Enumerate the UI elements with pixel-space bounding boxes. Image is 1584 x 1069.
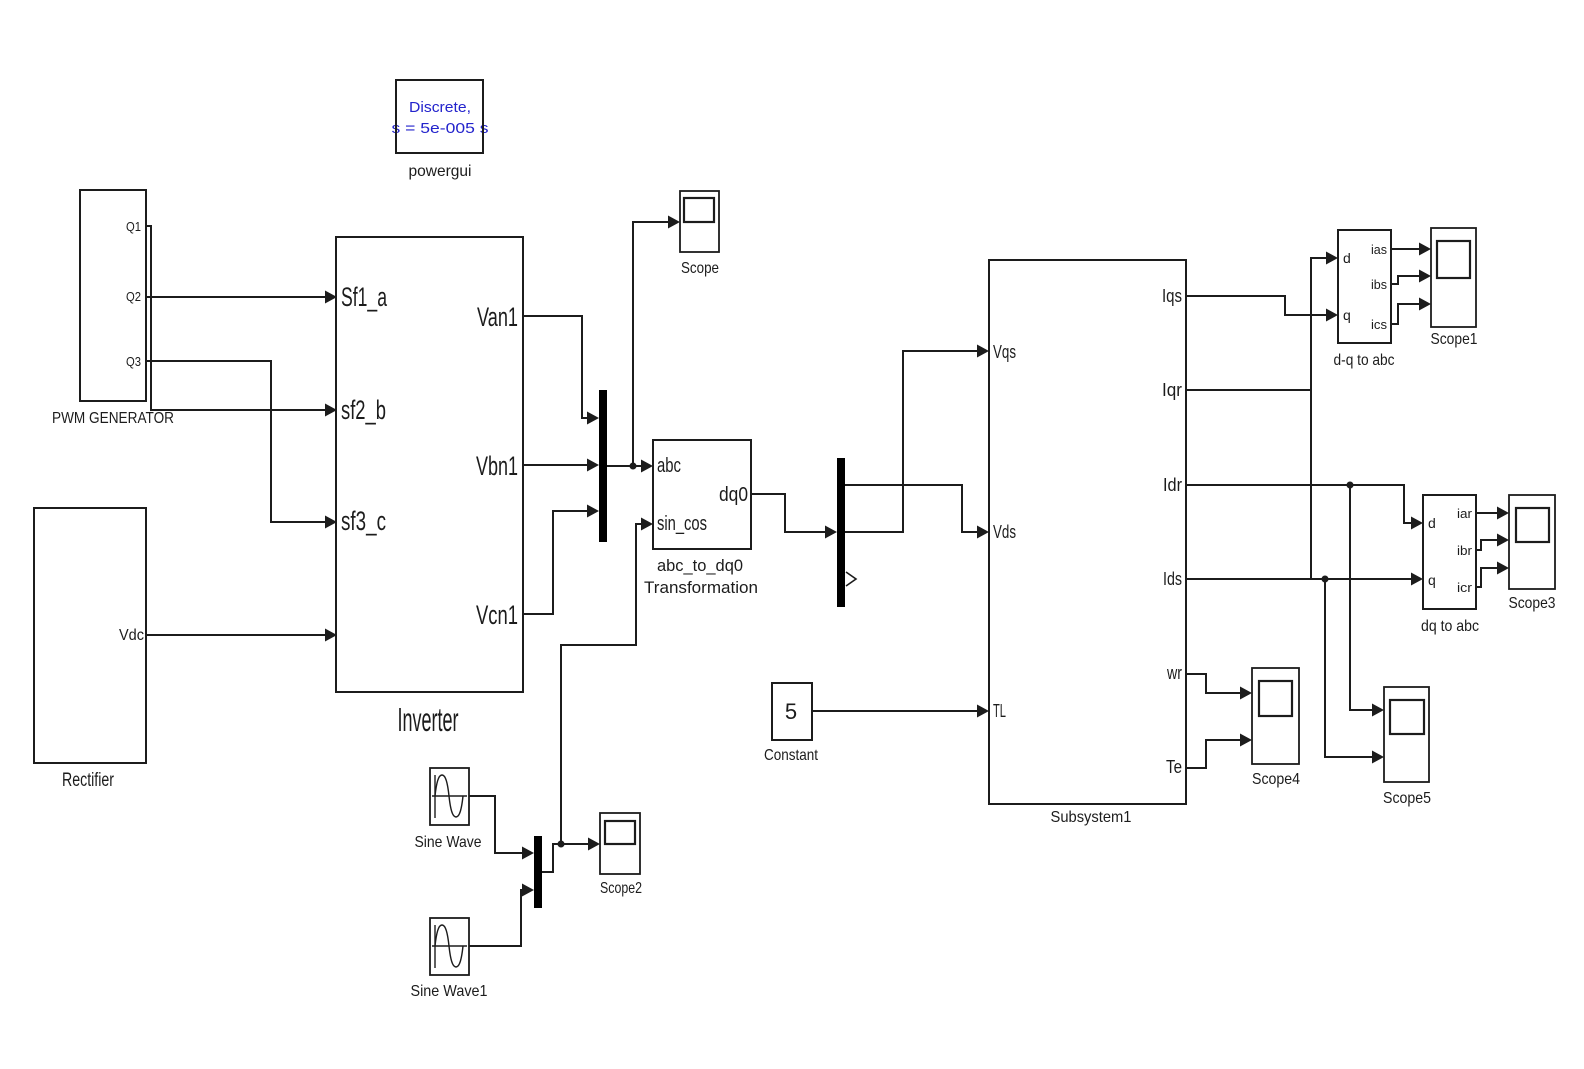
svg-text:Vbn1: Vbn1 [476, 451, 518, 481]
svg-text:Vqs: Vqs [993, 342, 1016, 362]
svg-text:Constant: Constant [764, 747, 818, 764]
svg-text:icr: icr [1457, 580, 1473, 595]
svg-text:ibr: ibr [1457, 543, 1473, 558]
svg-text:Van1: Van1 [477, 302, 518, 332]
svg-text:Iqr: Iqr [1162, 380, 1182, 400]
svg-text:Te: Te [1166, 757, 1182, 777]
svg-text:Q3: Q3 [126, 354, 141, 369]
svg-text:dq to abc: dq to abc [1421, 618, 1479, 635]
svg-text:Idr: Idr [1163, 475, 1182, 495]
svg-text:Scope2: Scope2 [600, 880, 642, 897]
svg-text:iar: iar [1457, 506, 1473, 521]
svg-text:ibs: ibs [1371, 277, 1387, 292]
svg-text:Subsystem1: Subsystem1 [1051, 809, 1132, 826]
svg-text:Vcn1: Vcn1 [476, 600, 518, 630]
svg-text:d: d [1343, 250, 1351, 266]
svg-text:Sine Wave: Sine Wave [415, 834, 482, 851]
svg-text:abc: abc [657, 455, 681, 477]
svg-text:Scope3: Scope3 [1509, 595, 1556, 612]
svg-text:5: 5 [785, 699, 797, 724]
svg-text:ics: ics [1371, 317, 1388, 332]
svg-text:dq0: dq0 [719, 484, 748, 506]
svg-text:Rectifier: Rectifier [62, 770, 114, 791]
svg-text:abc_to_dq0: abc_to_dq0 [657, 556, 743, 575]
svg-text:Discrete,: Discrete, [409, 99, 471, 116]
svg-text:q: q [1428, 572, 1436, 588]
svg-text:PWM GENERATOR: PWM GENERATOR [52, 410, 174, 427]
svg-text:d-q to abc: d-q to abc [1334, 352, 1395, 369]
svg-text:sf3_c: sf3_c [341, 506, 386, 536]
svg-text:Sf1_a: Sf1_a [341, 282, 388, 312]
svg-text:Q2: Q2 [126, 289, 141, 304]
svg-text:d: d [1428, 515, 1436, 531]
svg-text:Q1: Q1 [126, 219, 141, 234]
svg-text:s = 5e-005 s: s = 5e-005 s [392, 120, 489, 137]
svg-text:Vdc: Vdc [119, 627, 144, 644]
svg-text:q: q [1343, 307, 1351, 323]
svg-text:TL: TL [993, 701, 1006, 721]
svg-text:ias: ias [1371, 242, 1387, 257]
svg-text:Scope4: Scope4 [1252, 771, 1300, 788]
svg-text:sf2_b: sf2_b [341, 395, 386, 425]
svg-text:Scope1: Scope1 [1431, 331, 1478, 348]
svg-text:wr: wr [1166, 663, 1182, 683]
svg-text:powergui: powergui [409, 163, 472, 180]
svg-text:Sine Wave1: Sine Wave1 [411, 983, 488, 1000]
svg-text:Vds: Vds [993, 522, 1016, 542]
svg-text:Scope5: Scope5 [1383, 790, 1431, 807]
svg-text:Inverter: Inverter [398, 701, 459, 738]
svg-text:Transformation: Transformation [644, 578, 758, 597]
svg-text:Iqs: Iqs [1162, 286, 1182, 306]
svg-text:Ids: Ids [1163, 569, 1182, 589]
svg-text:sin_cos: sin_cos [657, 513, 707, 535]
svg-text:Scope: Scope [681, 260, 719, 277]
